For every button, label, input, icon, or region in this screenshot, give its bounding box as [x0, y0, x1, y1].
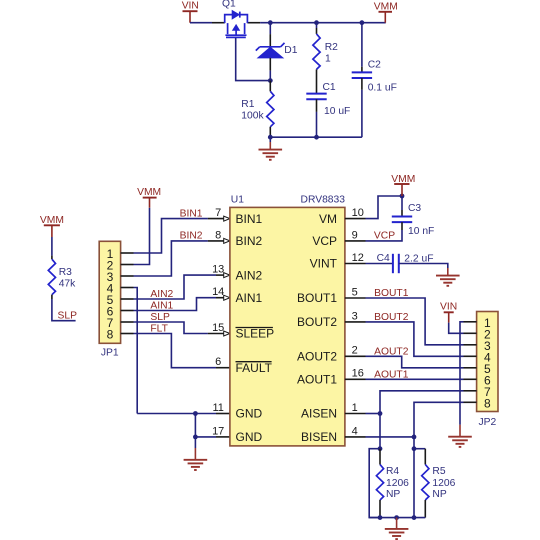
svg-text:7: 7	[215, 207, 221, 219]
node ground branch	[394, 515, 399, 520]
wire FLT (JP1-8 to U1-6)	[134, 334, 217, 368]
resistor R3	[48, 259, 55, 295]
svg-text:3: 3	[352, 310, 358, 322]
op-amp U1 DRV8833 motor driver IC	[212, 195, 364, 446]
svg-text:VM: VM	[319, 212, 337, 226]
svg-text:VIN: VIN	[182, 0, 199, 11]
node R1/GND/rail	[268, 135, 273, 140]
svg-text:AIN2: AIN2	[150, 289, 173, 300]
svg-text:12: 12	[352, 252, 364, 264]
wire top rail Q1 to VMM	[260, 22, 386, 24]
wire GND vertical	[194, 414, 196, 437]
pin C3 bottom lead	[401, 222, 403, 230]
sense resistor network R4 R5	[369, 449, 455, 539]
svg-text:BIN2: BIN2	[180, 231, 203, 242]
pin R4 top lead	[379, 449, 381, 465]
wire AISEN	[366, 413, 381, 415]
pin AISEN stub	[345, 413, 366, 415]
svg-text:1206: 1206	[432, 478, 455, 489]
svg-text:4: 4	[352, 425, 358, 437]
pin R1 bottom lead	[269, 127, 271, 137]
wire VIN to Q1 source	[190, 22, 212, 24]
node VMM/C3/VM	[400, 194, 405, 199]
wire AISEN node down to R4	[379, 414, 381, 449]
node top rail / D1	[268, 20, 273, 25]
svg-text:AIN1: AIN1	[236, 291, 263, 305]
wire BOUT1 to JP2-3	[366, 298, 464, 345]
pin R3 bottom lead	[51, 295, 53, 299]
wire C1 bottom	[316, 112, 318, 137]
svg-text:SLP: SLP	[58, 311, 78, 322]
wire C2 bottom to rail	[361, 90, 363, 137]
pin C2 top lead	[361, 67, 363, 73]
wire JP2-8 to BISEN node	[414, 402, 464, 437]
wire VMM to R3	[51, 237, 53, 256]
svg-text:BOUT1: BOUT1	[374, 288, 409, 299]
svg-text:5: 5	[352, 286, 358, 298]
svg-text:8: 8	[107, 328, 114, 342]
svg-text:R3: R3	[59, 267, 72, 278]
wire bottom rail	[369, 517, 425, 519]
wire bottom rail	[270, 136, 362, 138]
svg-text:AOUT1: AOUT1	[297, 373, 337, 387]
capacitor C1	[306, 94, 326, 100]
ground (below C4)	[447, 268, 449, 276]
resistor R5	[422, 465, 429, 501]
JP2 side nets	[378, 302, 472, 452]
pin C2 bottom lead	[361, 78, 363, 90]
svg-text:C3: C3	[408, 203, 421, 214]
svg-text:11: 11	[212, 402, 223, 414]
pin VCP stub	[345, 240, 366, 242]
pin R5 top lead	[424, 449, 426, 465]
svg-text:VIN: VIN	[440, 302, 457, 313]
svg-text:VCP: VCP	[312, 234, 337, 248]
svg-text:JP2: JP2	[479, 417, 497, 428]
svg-text:AOUT1: AOUT1	[374, 369, 409, 380]
svg-text:SLEEP: SLEEP	[236, 327, 275, 341]
pin VINT stub	[345, 263, 366, 265]
wire GND to U1-11	[137, 413, 216, 415]
svg-text:10 nF: 10 nF	[408, 226, 434, 237]
pin D1 cathode lead	[269, 34, 271, 46]
pin Q1 drain lead	[247, 22, 260, 24]
svg-text:15: 15	[212, 322, 224, 334]
supply VMM (top right)	[374, 1, 398, 22]
svg-text:AIN2: AIN2	[236, 268, 263, 282]
node R4 bottom	[378, 515, 383, 520]
pin R5 bottom lead	[424, 500, 426, 518]
resistor R1	[267, 91, 274, 127]
pin Q1 source lead	[212, 22, 225, 24]
svg-text:BOUT2: BOUT2	[374, 312, 409, 323]
supply VIN (top left)	[182, 0, 199, 22]
pin C3 top lead	[401, 210, 403, 217]
wire VMM (JP1-2)	[134, 208, 150, 265]
wire R2 top	[316, 23, 318, 28]
svg-text:FAULT: FAULT	[236, 361, 273, 375]
wire R4 bypass loop	[369, 449, 380, 518]
node R4 top	[378, 446, 383, 451]
wire BISEN node down to R5	[413, 437, 415, 449]
svg-text:AISEN: AISEN	[301, 407, 337, 421]
resistor R2	[313, 34, 320, 70]
svg-text:VCP: VCP	[374, 231, 395, 242]
node R5 top	[412, 446, 417, 451]
svg-text:C2: C2	[368, 60, 381, 71]
svg-text:17: 17	[212, 425, 224, 437]
pin VM stub	[345, 218, 366, 220]
svg-text:AOUT2: AOUT2	[297, 350, 337, 364]
diode D1 (zener)	[256, 43, 285, 58]
resistor R4	[376, 465, 383, 501]
node gate/D1/R1	[268, 78, 273, 83]
node rail / C1	[314, 135, 319, 140]
pin R4 bottom lead	[379, 500, 381, 518]
wire VINT to C4	[366, 263, 393, 265]
pin R3 top lead	[51, 256, 53, 260]
svg-text:VMM: VMM	[374, 1, 398, 12]
svg-text:FLT: FLT	[150, 323, 168, 334]
pin AOUT2 stub	[345, 355, 366, 357]
svg-text:GND: GND	[236, 430, 263, 444]
svg-text:C4: C4	[377, 253, 390, 264]
wire AOUT2 to JP2-5	[366, 356, 464, 368]
wire BOUT2 to JP2-4	[366, 322, 464, 356]
svg-text:47k: 47k	[59, 278, 76, 289]
svg-text:GND: GND	[236, 407, 263, 421]
svg-text:BIN1: BIN1	[236, 212, 263, 226]
supply VMM (left)	[40, 215, 64, 237]
svg-text:2.2 uF: 2.2 uF	[404, 253, 433, 264]
ground (below R1)	[259, 137, 283, 160]
svg-text:U1: U1	[231, 195, 244, 206]
svg-text:0.1 uF: 0.1 uF	[368, 83, 397, 94]
pin D1 anode lead	[269, 58, 271, 71]
svg-text:NP: NP	[432, 489, 446, 500]
capacitor C2	[352, 72, 372, 78]
node R5 bottom	[412, 515, 417, 520]
svg-text:BIN2: BIN2	[236, 234, 263, 248]
pin AOUT1 stub	[345, 378, 366, 380]
wire D1 anode to node	[269, 71, 271, 81]
wire JP2-7 to AISEN node	[380, 391, 464, 414]
svg-text:AOUT2: AOUT2	[374, 346, 409, 357]
svg-text:1: 1	[352, 402, 358, 414]
capacitor C3	[392, 217, 412, 223]
node top rail / R2	[314, 20, 319, 25]
svg-text:R4: R4	[386, 466, 399, 477]
wire VIN to JP2-2	[449, 323, 464, 334]
ground (below U1 GND pins)	[194, 437, 196, 448]
svg-text:NP: NP	[386, 489, 400, 500]
node BISEN	[412, 435, 417, 440]
svg-text:BISEN: BISEN	[301, 430, 337, 444]
transistor Q1 (P-MOSFET)	[225, 11, 248, 38]
pin C1 bottom lead	[316, 99, 318, 112]
wire AIN2 (JP1-5 to U1-13)	[134, 275, 217, 299]
svg-text:1206: 1206	[386, 478, 409, 489]
node GND / U1-17	[193, 435, 198, 440]
node AISEN	[378, 411, 383, 416]
svg-text:R1: R1	[241, 99, 254, 110]
pin BOUT2 stub	[345, 321, 366, 323]
wire GND to U1-17	[195, 436, 216, 438]
svg-text:1: 1	[325, 53, 331, 64]
svg-text:14: 14	[212, 286, 224, 298]
wire JP2-1 to ground	[460, 322, 464, 425]
svg-text:AIN1: AIN1	[150, 300, 173, 311]
svg-text:100k: 100k	[241, 111, 264, 122]
wire BIN1 (JP1-1 to U1-7)	[134, 219, 208, 253]
capacitor C4	[393, 254, 399, 273]
wire SLP (JP1-7 to U1-15)	[134, 322, 208, 334]
svg-text:6: 6	[215, 356, 221, 368]
wire R3 to SLP stub	[52, 299, 76, 321]
svg-text:JP1: JP1	[101, 348, 119, 359]
wire C2 top	[361, 23, 363, 67]
svg-text:BIN1: BIN1	[180, 208, 203, 219]
node GND branch	[193, 411, 198, 416]
svg-text:8: 8	[484, 396, 491, 410]
wire VCP	[366, 230, 403, 241]
pin R2 top lead	[316, 28, 318, 34]
top reverse-protection circuit	[182, 0, 398, 160]
wire VM to VMM	[366, 196, 403, 219]
svg-text:C1: C1	[323, 82, 336, 93]
svg-text:BOUT1: BOUT1	[297, 291, 337, 305]
svg-text:8: 8	[215, 229, 221, 241]
pin R1 top lead	[269, 81, 271, 92]
wire Q1 gate to D1/R1 node	[236, 38, 271, 81]
svg-text:2: 2	[352, 345, 358, 357]
wire BIN2 (JP1-3 to U1-8)	[134, 241, 208, 276]
pin BOUT1 stub	[345, 297, 366, 299]
svg-text:R5: R5	[432, 466, 445, 477]
svg-text:D1: D1	[284, 45, 297, 56]
net wires from JP1	[134, 187, 230, 413]
node top rail / C2	[360, 20, 365, 25]
wire D1 cathode	[269, 23, 271, 34]
left pull-up R3 branch	[40, 215, 77, 322]
svg-text:R2: R2	[325, 42, 338, 53]
wire R5 bypass	[414, 448, 425, 450]
ground (below JP2)	[459, 425, 461, 437]
pin R2 bottom / C1 top leads	[316, 69, 318, 93]
svg-text:10: 10	[352, 207, 364, 219]
pin BISEN stub	[345, 436, 366, 438]
svg-text:BOUT2: BOUT2	[297, 315, 337, 329]
svg-text:9: 9	[352, 229, 358, 241]
svg-text:13: 13	[212, 264, 224, 276]
wire C4 right to ground	[399, 264, 448, 269]
wire AOUT1 to JP2-6	[366, 378, 464, 380]
svg-text:DRV8833: DRV8833	[301, 195, 346, 206]
svg-text:VINT: VINT	[310, 257, 338, 271]
svg-text:SLP: SLP	[150, 312, 170, 323]
connector JP1	[99, 241, 133, 358]
svg-text:16: 16	[352, 368, 364, 380]
connector JP2	[464, 312, 499, 429]
wire BISEN	[366, 436, 415, 438]
wire GND (JP1-4 down)	[134, 288, 138, 414]
wire R5 short vertical	[413, 449, 415, 518]
wire C3 top	[401, 196, 403, 210]
GND net at U1 left bottom	[137, 411, 230, 470]
svg-text:10 uF: 10 uF	[324, 106, 350, 117]
wire AIN1 (JP1-6 to U1-14)	[134, 298, 217, 311]
svg-text:Q1: Q1	[222, 0, 236, 9]
right side nets	[345, 174, 464, 439]
svg-text:VMM: VMM	[137, 187, 161, 198]
ground (below R4 R5)	[396, 518, 398, 529]
